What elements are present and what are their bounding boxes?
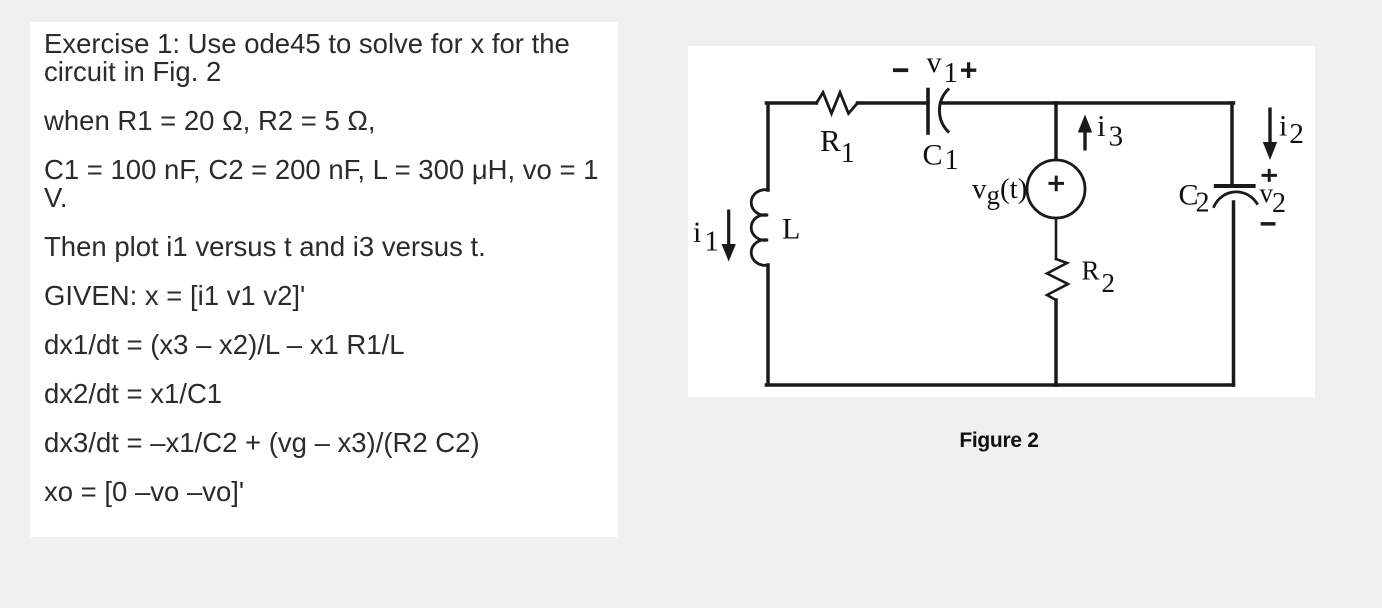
circuit figure panel bbox=[688, 46, 1315, 397]
svg-text:L: L bbox=[782, 213, 800, 246]
svg-text:C1: C1 bbox=[923, 139, 959, 177]
label R1 bbox=[820, 123, 855, 169]
svg-text:R2: R2 bbox=[1082, 256, 1116, 299]
wire: inductor bottom to bottom-left corner bbox=[766, 265, 1056, 385]
svg-text:R1: R1 bbox=[820, 123, 855, 169]
label L bbox=[782, 213, 800, 246]
wire: C1 to node A bbox=[941, 101, 1056, 105]
plus sign inside voltage source bbox=[1049, 176, 1065, 192]
wire: source to R2 bbox=[1055, 218, 1058, 259]
label R2 bbox=[1082, 256, 1116, 299]
resistor R1 bbox=[817, 93, 858, 114]
wire: bottom right segment bbox=[1056, 383, 1234, 387]
svg-text:v2: v2 bbox=[1260, 178, 1287, 219]
wire: right branch top (corner to C2) bbox=[1230, 103, 1234, 186]
inductor L bbox=[751, 190, 768, 266]
wire: node A to top-right corner bbox=[1056, 101, 1234, 105]
arrow i2 bbox=[1263, 108, 1277, 161]
svg-text:v1: v1 bbox=[927, 46, 959, 89]
svg-text:i2: i2 bbox=[1279, 110, 1304, 151]
figure caption bbox=[899, 429, 1099, 453]
capacitor C2 bbox=[1214, 186, 1257, 207]
label v1 polarity bbox=[893, 46, 976, 89]
wire: C2 to bottom-right corner bbox=[1232, 202, 1236, 385]
label C1 bbox=[923, 139, 959, 177]
wire: R1 to C1 bbox=[858, 101, 929, 105]
voltage source vg(t) bbox=[1027, 160, 1085, 218]
label v2 polarity bbox=[1260, 169, 1287, 226]
arrow i1 bbox=[722, 210, 736, 262]
label vg(t) bbox=[972, 173, 1027, 210]
exercise text panel bbox=[30, 22, 618, 537]
capacitor C1 bbox=[928, 90, 948, 134]
wire: R2 to bottom wire bbox=[1054, 300, 1058, 385]
svg-text:vg(t): vg(t) bbox=[972, 173, 1027, 210]
svg-text:i1: i1 bbox=[693, 216, 719, 258]
label i3 bbox=[1097, 108, 1123, 153]
label i1 bbox=[693, 216, 719, 258]
wire: middle branch top (node A to source) bbox=[1054, 103, 1058, 159]
resistor R2 bbox=[1047, 259, 1068, 300]
arrow i3 bbox=[1078, 115, 1092, 151]
wire: top-left corner (inductor top to R1) bbox=[766, 103, 816, 190]
label C2 bbox=[1179, 179, 1210, 219]
svg-text:C2: C2 bbox=[1179, 179, 1210, 219]
label i2 bbox=[1279, 110, 1304, 151]
svg-text:i3: i3 bbox=[1097, 108, 1123, 153]
